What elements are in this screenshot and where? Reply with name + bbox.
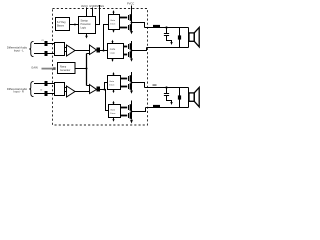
rail HB4: [131, 101, 133, 112]
rail HB2: [131, 41, 133, 51]
svg-text:Logic: Logic: [81, 27, 87, 29]
FET M6: [128, 84, 130, 89]
box U1 regulator/bias: [56, 18, 70, 31]
FET M1: [128, 15, 130, 20]
label differential audio input R: [7, 87, 28, 94]
op-amp A1: [67, 45, 76, 56]
connector tab L: [65, 48, 67, 52]
label differential audio input L: [7, 46, 28, 53]
arrowhead into U2: [75, 23, 78, 25]
G3 arrow up: [113, 74, 115, 75]
ground arrow below U2: [86, 34, 88, 37]
PVCC rail pin: [131, 6, 133, 15]
capacitor CI top-L: [45, 41, 48, 46]
wire drain-node: [131, 14, 133, 23]
connector tab R: [65, 88, 67, 92]
node OUT2P: [131, 82, 133, 84]
comparator K2: [90, 85, 97, 94]
G1 arrow up: [113, 12, 115, 14]
FET M8: [128, 113, 130, 118]
wire: [48, 53, 55, 55]
pin label AVCC: [81, 4, 88, 8]
svg-text:Drive: Drive: [110, 23, 116, 26]
load cap ch2: [179, 88, 181, 108]
wire: [48, 43, 55, 45]
pin wire VREG: [96, 5, 100, 25]
ground arrow HB1: [130, 31, 133, 34]
branch up to G3: [105, 83, 108, 90]
gate drive G1: [109, 15, 120, 30]
junction: [104, 89, 106, 91]
FET M2: [128, 25, 130, 30]
wire K1 out to gate drive: [100, 50, 108, 52]
wire node-source HB3: [131, 83, 133, 91]
wire A2 to comparator K2: [75, 91, 90, 93]
snubber cap ch2: [165, 86, 167, 88]
label CI: [40, 90, 43, 92]
ramp input wire ch2: [87, 85, 91, 87]
FET M1 gate tab: [120, 17, 128, 19]
FET M4: [128, 52, 130, 57]
FET M5: [128, 76, 130, 81]
label CI: [42, 40, 45, 42]
svg-text:Gate: Gate: [109, 80, 115, 83]
oscillator ramp generator box: [58, 63, 76, 74]
wire LINN: [34, 53, 45, 55]
brace right channel: [29, 81, 33, 96]
wire node-source: [131, 23, 133, 31]
filter ch2 bottom wire: [146, 107, 189, 109]
node OUT2N: [131, 111, 133, 113]
snubber cap ch1: [165, 26, 167, 28]
capacitor CI bot-L: [45, 51, 48, 56]
filter ch1 top wire: [145, 27, 189, 29]
brace left channel: [29, 41, 33, 56]
speaker connector ch2: [188, 88, 190, 108]
wire RINN: [34, 93, 45, 95]
FET M3: [128, 44, 130, 49]
FET M2 gate tab: [120, 27, 128, 29]
label LC ch2: [153, 84, 157, 86]
wire: [48, 93, 55, 95]
gate drive G4: [109, 105, 121, 118]
wire A1 to comparator K1: [75, 50, 90, 52]
FET M8 gate tab: [121, 115, 128, 117]
G2 arrow down: [112, 59, 114, 60]
ramp input wire ch1: [87, 53, 91, 55]
filter ch1 bottom wire: [147, 47, 189, 49]
FET M3 gate tab: [124, 46, 128, 48]
FET M4 gate tab: [124, 54, 128, 56]
IC boundary dashed box: [53, 9, 148, 126]
junction: [103, 50, 105, 52]
ground arrow HB3: [130, 91, 133, 94]
svg-text:Gate: Gate: [110, 19, 116, 22]
junction on ramp bus: [86, 68, 88, 70]
box U2 startup protection logic: [79, 17, 96, 34]
svg-text:GAIN: GAIN: [31, 66, 37, 70]
wire branch up to G1: [104, 25, 109, 51]
FET M5 gate tab: [121, 78, 128, 80]
G2 arrow up: [112, 42, 114, 44]
ramp bus vertical: [86, 54, 88, 86]
svg-text:GVDD: GVDD: [89, 4, 97, 8]
FET M7: [128, 105, 130, 110]
svg-text:8-V Reg: 8-V Reg: [57, 22, 66, 24]
wire node-source HB2: [131, 51, 133, 59]
ground arrow HB4: [130, 120, 133, 124]
G1 arrow down: [113, 30, 115, 31]
svg-text:AVCC: AVCC: [81, 4, 88, 8]
G3 arrow down: [113, 90, 115, 92]
capacitor CI top-R: [45, 81, 48, 86]
wire K2 out: [100, 89, 105, 91]
node OUT1P: [131, 22, 133, 24]
node OUT1N: [131, 50, 133, 52]
load cap ch1: [179, 28, 181, 48]
hysteresis symbol ch2: [97, 87, 101, 92]
svg-text:Drive: Drive: [109, 83, 115, 86]
svg-text:Generator: Generator: [60, 69, 71, 72]
wire U1 to U2: [70, 24, 79, 26]
op-amp A2: [67, 86, 76, 97]
ground arrow HB2: [130, 59, 133, 62]
ferrite bead ch1: [153, 25, 160, 28]
svg-text:Logic: Logic: [110, 53, 116, 55]
G4 arrow up: [113, 103, 115, 105]
FET M6 gate tab: [121, 86, 128, 88]
svg-text:Gate: Gate: [110, 109, 116, 112]
svg-text:Ramp: Ramp: [60, 66, 67, 68]
capacitor CI bot-R: [45, 91, 48, 96]
pin wire AVCC: [86, 8, 88, 17]
FET M7 gate tab: [121, 107, 128, 109]
svg-text:Input - L: Input - L: [14, 48, 24, 52]
svg-text:PWM: PWM: [110, 49, 116, 51]
ferrite bead ch2: [153, 105, 160, 108]
svg-text:Biases: Biases: [57, 26, 65, 28]
svg-text:VREG: VREG: [97, 4, 104, 8]
gain select bus arrow: [42, 68, 55, 70]
speaker ch1: [189, 33, 194, 41]
OUT1N tap wire: [132, 48, 147, 51]
pin label VREG: [97, 4, 104, 8]
filter ch2 top wire: [145, 87, 189, 89]
label GAIN: [31, 66, 37, 70]
wire LINP: [34, 43, 45, 45]
gate drive G2: [108, 44, 124, 59]
input resistor block R: [55, 83, 65, 96]
wire RINP: [34, 83, 45, 85]
svg-text:Input - R: Input - R: [13, 90, 23, 94]
OUT2P tap wire: [132, 83, 145, 88]
svg-text:Startup: Startup: [81, 20, 89, 23]
G4 arrow down: [113, 118, 115, 120]
svg-text:Drive: Drive: [110, 112, 116, 115]
pin wire GVDD: [92, 8, 94, 17]
speaker connector ch1: [188, 28, 190, 48]
OUT2N tap wire: [132, 108, 146, 112]
rail HB3: [131, 72, 133, 83]
wire node-source HB4: [131, 112, 133, 120]
svg-text:PVCC: PVCC: [127, 1, 134, 5]
gate drive G3: [108, 76, 121, 90]
pin label PVCC: [127, 1, 134, 5]
svg-text:Protection: Protection: [81, 23, 92, 26]
comparator K1: [90, 45, 97, 55]
input resistor block L: [55, 43, 65, 56]
speaker ch2: [189, 93, 194, 101]
pin label GVDD: [89, 4, 97, 8]
branch down to G4: [105, 90, 109, 111]
OUT1P tap wire: [132, 23, 145, 28]
hysteresis symbol ch1: [97, 48, 101, 53]
wire: [48, 83, 55, 85]
osc output wire: [75, 68, 87, 70]
